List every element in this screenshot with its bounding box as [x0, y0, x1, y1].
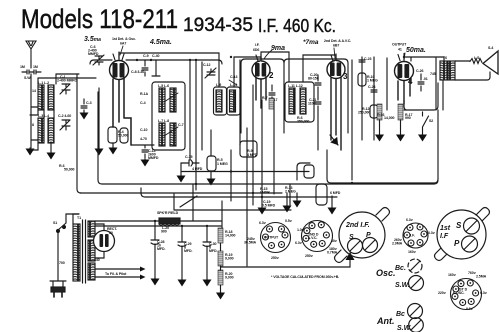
- svg-text:T1: T1: [77, 216, 81, 220]
- svg-text:S.W.: S.W.: [24, 76, 31, 80]
- svg-text:160v: 160v: [408, 250, 416, 254]
- wire riser x79: [77, 74, 81, 193]
- svg-text:S-4: S-4: [488, 46, 493, 50]
- svg-text:2.9MA: 2.9MA: [392, 242, 403, 246]
- svg-text:MMFD: MMFD: [88, 52, 99, 56]
- trimmer C-12: [205, 68, 216, 78]
- wire plate V1 to IF1: [119, 53, 219, 87]
- svg-text:MFD.: MFD.: [184, 249, 192, 253]
- variable capacitor C-1: [60, 84, 70, 94]
- AC plug: [50, 277, 66, 287]
- capacitor C-26: [418, 74, 424, 91]
- svg-text:160v: 160v: [448, 273, 456, 277]
- svg-text:0.7MA: 0.7MA: [327, 251, 338, 255]
- svg-text:1100: 1100: [308, 102, 315, 106]
- wire x387: [386, 58, 388, 110]
- svg-text:MFD.: MFD.: [157, 247, 165, 251]
- ground C-28: [154, 278, 156, 279]
- socket 2nd det: [302, 221, 333, 252]
- capacitor C-24: [371, 90, 377, 92]
- svg-text:4.5ma.: 4.5ma.: [149, 39, 172, 46]
- svg-text:2-490 MMFD: 2-490 MMFD: [57, 79, 77, 83]
- svg-text:250v: 250v: [271, 256, 279, 260]
- coil L-4: [48, 118, 54, 143]
- svg-text:OUTPUT: OUTPUT: [392, 43, 407, 47]
- svg-text:3: 3: [343, 72, 348, 81]
- coil L-5: [159, 88, 165, 112]
- trimmer C-13 arrow: [229, 80, 237, 85]
- ground antenna: [29, 148, 31, 149]
- ground C-29: [181, 279, 183, 280]
- svg-text:8: 8: [32, 123, 34, 127]
- svg-text:2.5MA: 2.5MA: [476, 275, 487, 279]
- capacitor C-23: [359, 60, 365, 62]
- ground R-16: [379, 120, 381, 135]
- wire x99: [98, 88, 100, 148]
- ground under R-4: [112, 143, 114, 148]
- coil L-3: [38, 118, 44, 143]
- svg-text:S1: S1: [53, 221, 57, 225]
- shield box 1st det: [90, 60, 222, 64]
- svg-text:50,000: 50,000: [64, 168, 74, 172]
- ground x262: [261, 201, 263, 208]
- osc sw screw: [409, 276, 424, 291]
- wire top connect: [56, 74, 79, 78]
- wire R chain: [220, 243, 222, 293]
- svg-text:700: 700: [59, 261, 65, 265]
- socket IF: [403, 223, 428, 248]
- svg-text:1 MEG: 1 MEG: [217, 162, 228, 166]
- shield box 2nd det stage: [284, 59, 348, 133]
- svg-text:6.3v: 6.3v: [406, 218, 413, 222]
- wire y210: [174, 194, 291, 210]
- 1st IF transformer box L-14: [227, 87, 240, 115]
- svg-text:To Fil. & Pilot: To Fil. & Pilot: [105, 272, 127, 276]
- svg-text:80-150: 80-150: [308, 77, 319, 81]
- shield box IF stage: [241, 59, 284, 133]
- ground x332: [331, 196, 333, 208]
- wire tube2 pins: [256, 77, 266, 108]
- resistor box C-16: [207, 156, 216, 171]
- svg-text:745: 745: [430, 72, 436, 76]
- svg-text:C-3: C-3: [86, 101, 92, 105]
- ground x99: [98, 148, 100, 149]
- svg-text:1M: 1M: [20, 65, 25, 69]
- capacitor C-20: [315, 75, 321, 92]
- svg-text:4-70: 4-70: [140, 137, 147, 141]
- svg-text:C-12: C-12: [203, 63, 210, 67]
- svg-text:50ma.: 50ma.: [406, 47, 426, 54]
- svg-text:C-24: C-24: [368, 85, 375, 89]
- T1 secondary mid: [88, 240, 95, 261]
- wire IF1 to V2 grid: [234, 57, 261, 87]
- capacitor C-15: [181, 160, 199, 166]
- wire IF2 to V3: [303, 55, 336, 82]
- wire verticals at IF1: [240, 60, 253, 196]
- box C-18: [240, 141, 257, 157]
- AVC arrow: [330, 135, 338, 145]
- T1 core: [83, 220, 86, 283]
- svg-text:6.3v: 6.3v: [259, 221, 266, 225]
- svg-text:* VOLTAGE CALCULATED FROM 260v: * VOLTAGE CALCULATED FROM 260v.+B.: [271, 275, 339, 279]
- svg-text:C-15: C-15: [185, 155, 192, 159]
- svg-text:6.3v: 6.3v: [295, 241, 302, 245]
- capacitor C-21: [315, 92, 321, 150]
- resistor R-16 vertical: [377, 104, 382, 120]
- wire coils interconnect: [30, 110, 54, 152]
- svg-text:LNDR: LNDR: [260, 191, 270, 195]
- coil L-6: [170, 88, 176, 112]
- svg-text:1 MEG: 1 MEG: [367, 79, 378, 83]
- ant sw screw: [409, 318, 424, 332]
- svg-text:6A7: 6A7: [120, 42, 126, 46]
- wire sec to tube: [95, 224, 104, 258]
- svg-text:1st: 1st: [440, 225, 451, 232]
- svg-text:220v: 220v: [438, 291, 446, 295]
- svg-text:A.V.C.: A.V.C.: [308, 236, 318, 240]
- svg-text:Bc: Bc: [396, 311, 405, 318]
- ground C-30: [206, 279, 208, 280]
- svg-text:L-11 L-12: L-11 L-12: [288, 84, 303, 88]
- ant bc screw: [408, 304, 423, 319]
- wire S1 to plug: [58, 214, 79, 277]
- electrolytic C-30: [203, 226, 211, 279]
- svg-text:R-1A: R-1A: [140, 92, 148, 96]
- socket 1st det: [451, 279, 482, 310]
- svg-text:14: 14: [32, 89, 36, 93]
- svg-text:I.F.: I.F.: [410, 234, 415, 238]
- rect tube 80: [94, 231, 115, 252]
- voltage arrow line: [221, 258, 351, 267]
- capacitor C-17: [269, 85, 275, 101]
- svg-text:2nd Det. & A.V.C.: 2nd Det. & A.V.C.: [324, 39, 351, 43]
- resistor R-4 box: [108, 127, 117, 143]
- svg-text:9ma: 9ma: [271, 45, 285, 52]
- capacitor C-14: [131, 145, 154, 158]
- ground R-17: [400, 120, 402, 135]
- variable capacitor C-6: [93, 55, 104, 65]
- bus y184: [98, 92, 438, 184]
- volume control loop: [297, 163, 310, 180]
- svg-text:S.W.: S.W.: [395, 282, 410, 289]
- svg-text:0.5 MFD: 0.5 MFD: [262, 204, 276, 208]
- svg-text:30.5MA: 30.5MA: [244, 241, 256, 245]
- svg-text:6B7: 6B7: [333, 44, 339, 48]
- svg-text:30v: 30v: [331, 239, 337, 243]
- svg-text:I.F.: I.F.: [255, 43, 260, 47]
- svg-text:990: 990: [405, 116, 411, 120]
- svg-text:C-4: C-4: [140, 101, 146, 105]
- switch S-2: [423, 112, 429, 135]
- wire plate V2 to IF2: [261, 52, 289, 82]
- svg-text:Osc.: Osc.: [376, 268, 396, 278]
- svg-text:6.3v: 6.3v: [480, 291, 487, 295]
- svg-text:I.F: I.F: [440, 233, 449, 240]
- osc bc screw: [408, 259, 422, 273]
- svg-text:SPK'R FIELD: SPK'R FIELD: [157, 211, 179, 215]
- svg-text:2: 2: [269, 71, 274, 80]
- T1 primary: [73, 224, 80, 281]
- svg-text:4 MFD: 4 MFD: [247, 153, 258, 157]
- svg-text:C-8 3-30: C-8 3-30: [131, 70, 144, 74]
- ground below coils: [50, 152, 52, 153]
- tube V2 6D6: [252, 61, 270, 79]
- svg-text:Bc.: Bc.: [395, 265, 406, 272]
- cap L-15: [22, 60, 41, 86]
- switch S1: [57, 230, 60, 233]
- resistor R-19: [218, 251, 223, 266]
- svg-text:OUTPUT: OUTPUT: [264, 236, 279, 240]
- svg-text:C-10: C-10: [140, 128, 147, 132]
- svg-text:C-9: C-9: [143, 54, 149, 58]
- ground x287: [286, 193, 288, 206]
- svg-text:C-40: C-40: [152, 54, 159, 58]
- svg-text:760v: 760v: [468, 271, 476, 275]
- svg-text:14,000: 14,000: [225, 234, 235, 238]
- svg-text:.01: .01: [423, 77, 428, 81]
- coil L-1: [38, 85, 44, 110]
- electrolytic C-28: [151, 221, 159, 280]
- wire top left bus: [38, 78, 96, 84]
- svg-text:250,000: 250,000: [358, 111, 370, 115]
- resistor box R-11: [304, 165, 314, 178]
- electrolytic C-29: [178, 226, 186, 279]
- svg-text:& OSC.: & OSC.: [453, 291, 465, 295]
- speaker: [483, 51, 498, 74]
- wire antenna down: [31, 86, 38, 148]
- coil L-11: [289, 88, 295, 114]
- trimmer capacitor C-2: [60, 120, 70, 130]
- ground S-2: [422, 134, 424, 135]
- 1st IF adjust: [435, 208, 490, 261]
- svg-text:9,000: 9,000: [225, 276, 234, 280]
- resistor R-20: [218, 270, 223, 285]
- resistor R-18: [218, 228, 223, 243]
- svg-text:*7ma: *7ma: [303, 39, 319, 46]
- svg-text:R-7: R-7: [262, 96, 268, 100]
- svg-text:1.0v: 1.0v: [297, 228, 304, 232]
- svg-text:S: S: [456, 221, 462, 230]
- 2nd IF transformer box: [285, 82, 314, 122]
- svg-text:440: 440: [94, 258, 100, 262]
- bus y196: [141, 188, 337, 197]
- svg-text:1934-35: 1934-35: [183, 15, 253, 36]
- svg-text:1st Det. & Osc.: 1st Det. & Osc.: [112, 37, 136, 41]
- T1 secondary bottom: [88, 263, 95, 280]
- svg-text:0.3v: 0.3v: [428, 231, 435, 235]
- svg-text:9,000: 9,000: [225, 257, 234, 261]
- svg-text:2 MEG: 2 MEG: [285, 190, 296, 194]
- ground x297: [296, 193, 298, 201]
- leader curves from current annotations: [120, 46, 405, 60]
- wire tube3 pins down: [331, 77, 341, 150]
- resistor R-12 box: [370, 105, 378, 118]
- svg-text:C-7: C-7: [178, 123, 184, 127]
- resistor R-7: [269, 98, 274, 109]
- svg-text:I.F. 460 Kc.: I.F. 460 Kc.: [258, 16, 336, 36]
- loop box right: [404, 83, 438, 179]
- resistor R-3 box: [120, 128, 128, 143]
- svg-text:L-7 L-8: L-7 L-8: [158, 119, 169, 123]
- bus y171: [181, 171, 309, 173]
- svg-text:6 MFD: 6 MFD: [330, 191, 341, 195]
- svg-text:41: 41: [398, 48, 402, 52]
- svg-text:1M: 1M: [33, 65, 38, 69]
- wire tube4 plate to T6: [404, 57, 444, 61]
- resistor R-10 box: [358, 73, 366, 86]
- trimmer arrow L-6: [164, 93, 178, 102]
- 1st IF transformer box L-9: [214, 87, 227, 115]
- coil L-2: [48, 85, 54, 110]
- svg-text:C-26: C-26: [416, 69, 423, 73]
- tube V4 output 41: [395, 62, 414, 81]
- svg-text:P: P: [454, 239, 460, 248]
- svg-text:T6: T6: [443, 56, 447, 60]
- wire diagonal: [180, 196, 197, 207]
- svg-text:6D6: 6D6: [253, 48, 259, 52]
- capacitor C-8: [81, 99, 87, 112]
- wire primary top: [58, 214, 79, 277]
- svg-text:C-2 4-60: C-2 4-60: [58, 114, 71, 118]
- svg-text:2nd I.F.: 2nd I.F.: [345, 222, 370, 229]
- to fil and pilot arrows: [95, 269, 140, 277]
- svg-text:C-23: C-23: [364, 57, 371, 61]
- wire tube4 pins: [398, 79, 410, 104]
- svg-text:4 MFD: 4 MFD: [192, 167, 203, 171]
- svg-text:0.6v: 0.6v: [466, 307, 473, 311]
- 2nd IF adjust: [335, 208, 390, 263]
- svg-text:Models 118-211: Models 118-211: [21, 4, 178, 34]
- socket output: [261, 223, 291, 253]
- bus y192: [80, 192, 282, 194]
- svg-text:S: S: [349, 234, 354, 241]
- small parts above osc box: [142, 60, 160, 76]
- coil L-12: [300, 88, 306, 114]
- coil L-8: [170, 123, 176, 146]
- svg-text:MFD.: MFD.: [209, 249, 217, 253]
- coil L-7: [159, 123, 165, 146]
- svg-text:S2: S2: [429, 119, 433, 123]
- antenna: [26, 41, 36, 60]
- svg-text:L-5 L-6: L-5 L-6: [158, 84, 169, 88]
- tube V3 6B7: [327, 61, 345, 79]
- resistor R-17 vertical: [398, 104, 403, 120]
- right cluster components: [352, 57, 374, 180]
- svg-text:250,000: 250,000: [297, 120, 309, 124]
- svg-text:Ant.: Ant.: [376, 316, 395, 326]
- svg-text:80: 80: [109, 231, 113, 235]
- bus y226: [95, 225, 221, 227]
- trimmer on L-8: [164, 127, 178, 136]
- wire T6 to speaker: [436, 58, 490, 110]
- svg-text:L-1 L-2: L-1 L-2: [38, 81, 49, 85]
- wire tube1 down pins: [113, 78, 131, 145]
- svg-text:0.5v: 0.5v: [285, 219, 292, 223]
- tube V1 6A7: [110, 61, 129, 80]
- wire verticals mid cluster: [190, 60, 202, 190]
- svg-text:14,000: 14,000: [384, 116, 394, 120]
- wire verticals to bottom: [193, 150, 290, 266]
- resistor box R-13: [316, 184, 327, 205]
- svg-text:900: 900: [161, 230, 167, 234]
- ground R-20: [220, 292, 222, 293]
- T1 secondary top: [88, 221, 95, 237]
- bus y183 right: [327, 150, 438, 183]
- svg-text:MMFD: MMFD: [148, 156, 159, 160]
- svg-text:250v: 250v: [305, 254, 313, 258]
- coil L-14: [230, 90, 236, 112]
- svg-text:3.5ma: 3.5ma: [84, 36, 101, 43]
- coil L-9: [216, 90, 222, 112]
- svg-text:P: P: [366, 232, 371, 239]
- bus y221: [95, 220, 222, 222]
- svg-text:L.S.: L.S.: [474, 56, 480, 60]
- osc coil box: [152, 82, 185, 150]
